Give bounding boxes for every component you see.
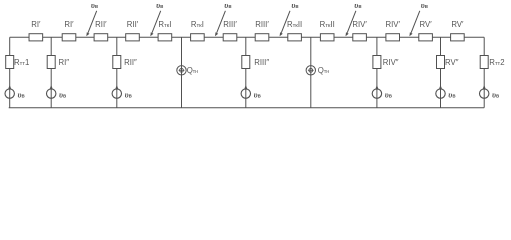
- svg-text:RIV″: RIV″: [383, 58, 399, 67]
- svg-text:RIV′: RIV′: [385, 20, 400, 29]
- svg-text:υв: υв: [156, 1, 163, 10]
- wire shunt branch R1s column: [50, 37, 52, 107]
- svg-text:υв: υв: [448, 90, 455, 99]
- source V5 (temperature source Ʉв): [372, 85, 392, 99]
- resistor R4s (RIV'') shunt: [373, 56, 399, 69]
- node b temperature arrow (Ʉ): [150, 1, 163, 36]
- svg-text:RIV′: RIV′: [352, 20, 367, 29]
- resistor R1b (RI') series: [62, 20, 76, 41]
- svg-text:υв: υв: [125, 90, 132, 99]
- resistor R4a (RIV') series: [352, 20, 367, 41]
- resistor R2s (RII'') shunt: [113, 56, 137, 69]
- wire shunt branch Rtt1 column: [9, 37, 11, 107]
- svg-text:υв: υв: [354, 1, 361, 10]
- resistor R3b (RIII') series: [255, 20, 269, 41]
- svg-text:υв: υв: [385, 90, 392, 99]
- resistor Rtk2b (RткII) series: [320, 20, 335, 41]
- svg-text:RI′: RI′: [31, 20, 41, 29]
- node c temperature arrow (Ʉ): [215, 1, 232, 36]
- resistor Rtk1a (RткI) series: [158, 20, 172, 41]
- node a temperature arrow (Ʉ): [86, 1, 98, 36]
- svg-text:Rтт1: Rтт1: [14, 58, 29, 67]
- wire top rail: [10, 36, 485, 38]
- wire shunt branch R2s column: [116, 37, 118, 107]
- resistor R1s (RI'') shunt: [47, 56, 69, 69]
- node f temperature arrow (Ʉ): [409, 1, 428, 36]
- resistor R3a (RIII') series: [223, 20, 237, 41]
- node d temperature arrow (Ʉ): [280, 1, 299, 36]
- resistor R5b (RV') series: [451, 20, 465, 41]
- svg-text:υв: υв: [91, 1, 98, 10]
- source V1 (temperature source Ʉв): [5, 85, 25, 99]
- svg-text:υв: υв: [59, 90, 66, 99]
- resistor Rtt1 (Rтт1) shunt: [6, 56, 30, 69]
- resistor Rtk1b (RткI) series: [191, 20, 205, 41]
- wire heat-source branch Q1 column: [181, 37, 183, 107]
- source Q2 (heat flow source Qтн): [306, 66, 329, 76]
- source V2 (temperature source Ʉв): [47, 85, 67, 99]
- source V3 (temperature source Ʉв): [112, 85, 132, 99]
- svg-text:RV′: RV′: [420, 20, 433, 29]
- svg-text:υв: υв: [291, 1, 298, 10]
- svg-text:υв: υв: [421, 1, 428, 10]
- resistor R4b (RIV') series: [385, 20, 400, 41]
- wire shunt branch R4s column: [376, 37, 378, 107]
- source Q1 (heat flow source Qтн): [177, 66, 198, 76]
- svg-text:RткII: RткII: [287, 20, 302, 29]
- svg-text:RI′: RI′: [64, 20, 74, 29]
- svg-text:υв: υв: [18, 90, 25, 99]
- wire shunt branch Rtt2 column: [483, 37, 485, 107]
- resistor R5a (RV') series: [419, 20, 433, 41]
- resistor R1a (RI') series: [29, 20, 43, 41]
- svg-text:υв: υв: [492, 90, 499, 99]
- svg-text:RV″: RV″: [445, 58, 459, 67]
- svg-text:RII′: RII′: [127, 20, 139, 29]
- source V4 (temperature source Ʉв): [241, 85, 261, 99]
- resistor R3s (RIII'') shunt: [242, 56, 270, 69]
- node e temperature arrow (Ʉ): [346, 1, 362, 36]
- resistor R2b (RII') series: [126, 20, 140, 41]
- resistor Rtk2a (RткII) series: [287, 20, 302, 41]
- source V7 (temperature source Ʉв): [480, 85, 500, 99]
- source V6 (temperature source Ʉв): [436, 85, 456, 99]
- svg-text:Qтн: Qтн: [318, 66, 329, 75]
- resistor Rtt2 (Rтт2) shunt: [480, 56, 504, 69]
- wire bottom rail: [9, 107, 485, 109]
- svg-text:RII″: RII″: [124, 58, 137, 67]
- svg-text:RII′: RII′: [95, 20, 107, 29]
- svg-text:Rтт2: Rтт2: [489, 58, 504, 67]
- svg-text:RIII′: RIII′: [223, 20, 237, 29]
- svg-text:RткI: RткI: [191, 20, 204, 29]
- svg-text:υв: υв: [254, 90, 261, 99]
- svg-text:RткI: RткI: [158, 20, 171, 29]
- svg-text:Qтн: Qтн: [187, 66, 198, 75]
- svg-text:RIII″: RIII″: [254, 58, 269, 67]
- wire heat-source branch Q2 column: [310, 37, 312, 107]
- resistor R2a (RII') series: [94, 20, 108, 41]
- svg-text:υв: υв: [224, 1, 231, 10]
- svg-text:RI″: RI″: [59, 58, 70, 67]
- svg-text:RткII: RткII: [320, 20, 335, 29]
- svg-text:RV′: RV′: [451, 20, 464, 29]
- wire shunt branch R5s column: [440, 37, 442, 107]
- wire shunt branch R3s column: [245, 37, 247, 107]
- resistor R5s (RV'') shunt: [437, 56, 459, 69]
- svg-text:RIII′: RIII′: [255, 20, 269, 29]
